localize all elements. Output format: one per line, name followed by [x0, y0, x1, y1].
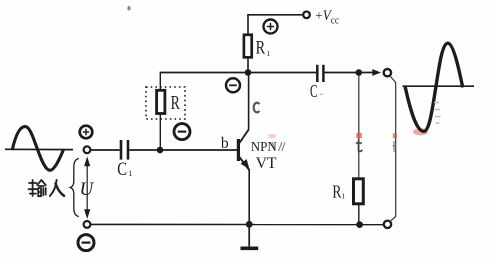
- transistor emitter stroke: [239, 157, 249, 171]
- circled minus (input bottom polarity): [78, 235, 94, 251]
- watermark red smudge at output trough: [413, 128, 428, 135]
- watermark t glyph on load lead: [356, 140, 363, 152]
- label C (output cap): [310, 81, 323, 101]
- label +Vcc: [315, 8, 339, 27]
- ground: [241, 224, 259, 248]
- label 输入 (input) drawn as strokes: [29, 180, 46, 196]
- output sine wave: [405, 43, 462, 131]
- label 入 (second char): [50, 180, 64, 196]
- emitter arrowhead: [241, 159, 250, 169]
- watermark gray mark on right branch: [393, 141, 397, 152]
- wire output right branch: [390, 76, 396, 221]
- node junction collector/R1: [245, 69, 252, 76]
- U up arrowhead: [84, 157, 90, 167]
- input sine baseline: [5, 148, 73, 150]
- watermark gray dashes near output wave: [434, 103, 441, 124]
- emitter wire down: [248, 170, 250, 225]
- node junction emitter/ground: [246, 221, 253, 228]
- label R1 (collector): [256, 38, 271, 59]
- output terminal bottom: [384, 221, 391, 228]
- collector rail wire: [160, 72, 317, 74]
- svg-text:+: +: [315, 8, 322, 23]
- circled minus (below dashed box): [174, 124, 190, 140]
- label RL: [332, 181, 345, 201]
- label C1: [117, 159, 132, 180]
- node junction load: [356, 69, 363, 76]
- capacitor C2 (output): [317, 65, 323, 82]
- wire C2 to output: [325, 72, 373, 74]
- wire C1 to base: [129, 149, 237, 151]
- watermark smudge over NPN: [269, 134, 276, 139]
- resistor R1 (collector): [244, 35, 252, 58]
- wire R1 top lead: [247, 15, 249, 36]
- wire R1 bottom lead: [247, 57, 249, 73]
- svg-text:1: 1: [341, 192, 345, 201]
- curly brace: [70, 159, 79, 217]
- collector wire up: [248, 73, 250, 131]
- wire input terminal to C1: [91, 149, 120, 151]
- svg-text:C: C: [310, 81, 318, 101]
- svg-text:R: R: [256, 38, 266, 59]
- top rail wire: [247, 14, 302, 16]
- circled plus (input top polarity): [80, 126, 93, 139]
- input terminal top: [84, 146, 91, 153]
- transistor collector stroke: [239, 130, 249, 144]
- output terminal top: [384, 69, 391, 76]
- resistor R (bias): [157, 90, 165, 113]
- svg-text:C: C: [117, 159, 127, 180]
- input terminal bottom: [84, 221, 91, 228]
- U down arrowhead: [84, 209, 90, 219]
- watermark strokes over NPN: [272, 142, 285, 151]
- node junction bottom rail: [356, 221, 363, 228]
- transistor VT base bar: [237, 139, 240, 161]
- svg-text:NPN: NPN: [251, 140, 277, 155]
- circled plus (supply polarity): [264, 20, 278, 34]
- svg-text:1: 1: [266, 49, 270, 58]
- wire load resistor top lead: [358, 76, 360, 179]
- U arrow line: [86, 160, 88, 214]
- wire R top lead: [159, 73, 161, 92]
- watermark red mark on right branch: [393, 133, 397, 138]
- label c: [254, 103, 260, 113]
- output sine baseline: [403, 85, 475, 87]
- node junction at base wire / R: [157, 147, 164, 154]
- svg-text:VT: VT: [256, 155, 277, 172]
- wire load resistor bottom lead: [358, 204, 360, 225]
- svg-text:cc: cc: [331, 14, 339, 26]
- output arrowhead: [372, 69, 381, 76]
- input sine wave: [13, 127, 64, 171]
- svg-text:1: 1: [128, 169, 132, 178]
- svg-text:b: b: [221, 135, 229, 152]
- svg-text:R: R: [171, 92, 181, 114]
- wire R bottom lead: [159, 113, 161, 150]
- stray speck top: [127, 6, 130, 11]
- bottom rail wire: [91, 223, 384, 225]
- watermark red mark on load lead: [356, 133, 362, 138]
- svg-text:R: R: [332, 181, 341, 201]
- Vcc terminal: [303, 12, 310, 19]
- capacitor C1: [121, 140, 128, 160]
- circled minus (collector polarity): [226, 78, 240, 92]
- resistor RL (load): [354, 179, 364, 204]
- dashed box around R: [146, 87, 185, 119]
- svg-text:U: U: [80, 179, 95, 200]
